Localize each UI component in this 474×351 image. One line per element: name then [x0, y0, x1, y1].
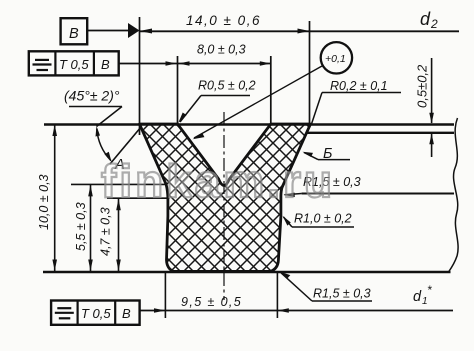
svg-text:9,5 ± 0,5: 9,5 ± 0,5 [181, 295, 242, 309]
balloon circle +0,1 [193, 42, 353, 139]
8.0 dimension line / frame leader [119, 63, 271, 65]
4.7 extension line [107, 197, 170, 199]
bottom d1 dimension line [140, 310, 453, 312]
svg-text:4,7 ± 0,3: 4,7 ± 0,3 [99, 207, 113, 256]
svg-text:Т 0,5: Т 0,5 [59, 57, 89, 72]
svg-text:finkam.ru: finkam.ru [101, 155, 335, 207]
watermark [101, 155, 335, 207]
svg-text:1: 1 [422, 296, 428, 307]
center line (dash-dot) [223, 112, 225, 300]
frame leader arrow [166, 61, 177, 65]
datum B box [61, 18, 88, 44]
8.0 left extension line [177, 56, 179, 124]
tolerance frame top [29, 51, 119, 75]
symmetry symbol [35, 59, 49, 61]
arrow 14.0 left [140, 29, 153, 34]
svg-text:В: В [69, 26, 79, 42]
8.0 left arrow [179, 61, 190, 65]
groove profile (hatched Y-shaped section) [140, 124, 311, 271]
top surface line [44, 123, 454, 126]
(45±2) angle annotation [64, 88, 141, 165]
45 construction line [110, 127, 141, 164]
svg-text:Т 0,5: Т 0,5 [81, 306, 111, 321]
datum B connecting line [87, 30, 129, 32]
tolerance frame bottom [51, 301, 140, 325]
R1,5 upper annotation [284, 175, 361, 197]
angle arc [97, 129, 111, 161]
label B (Б) [303, 146, 351, 162]
svg-text:В: В [122, 306, 131, 321]
R1,5 shelf / bore surface line [302, 193, 454, 195]
svg-text:8,0 ± 0,3: 8,0 ± 0,3 [197, 43, 246, 57]
5.5 dimension [71, 184, 166, 271]
5.5 extension line (valley level) [71, 183, 166, 185]
top dimension line 14.0 / d2 [140, 30, 460, 32]
svg-text:В: В [101, 57, 110, 72]
svg-text:10,0 ± 0,3: 10,0 ± 0,3 [37, 174, 51, 230]
9.5 dimension [154, 273, 289, 318]
d1* label [413, 283, 432, 307]
svg-text:(45°± 2)°: (45°± 2)° [64, 88, 120, 104]
svg-text:R0,5 ± 0,2: R0,5 ± 0,2 [198, 79, 256, 93]
wavy break line [449, 118, 459, 272]
10.0 dimension [37, 124, 57, 272]
R1,0 annotation [283, 212, 355, 228]
svg-text:2: 2 [430, 17, 438, 31]
R1,5 bottom annotation [280, 272, 372, 301]
svg-text:R1,0 ± 0,2: R1,0 ± 0,2 [294, 212, 352, 226]
datum B filled triangle [128, 23, 140, 38]
d2 step surface line [307, 132, 454, 134]
datum B extension line [139, 17, 141, 135]
svg-text:5,5 ± 0,3: 5,5 ± 0,3 [74, 202, 88, 251]
8.0 right extension line [270, 56, 272, 124]
svg-text:0,5±0,2: 0,5±0,2 [415, 64, 430, 108]
R0,2 annotation [312, 79, 402, 124]
svg-text:*: * [427, 283, 432, 297]
4.7 dimension [99, 198, 170, 271]
0.5 dimension (right step) [415, 58, 434, 157]
symmetry symbol [57, 307, 71, 309]
arrow 14.0 right [298, 29, 310, 34]
svg-text:d: d [420, 9, 431, 29]
svg-text:d: d [413, 289, 422, 305]
14.0 right extension line [309, 21, 311, 127]
R0,5 annotation [178, 79, 255, 123]
groove bottom line [43, 271, 451, 274]
8.0 right arrow [260, 61, 271, 65]
svg-text:R0,2 ± 0,1: R0,2 ± 0,1 [330, 79, 388, 93]
svg-text:14,0 ± 0,6: 14,0 ± 0,6 [186, 13, 261, 28]
svg-text:+0,1: +0,1 [325, 53, 346, 65]
svg-text:R1,5 ± 0,3: R1,5 ± 0,3 [313, 287, 371, 301]
